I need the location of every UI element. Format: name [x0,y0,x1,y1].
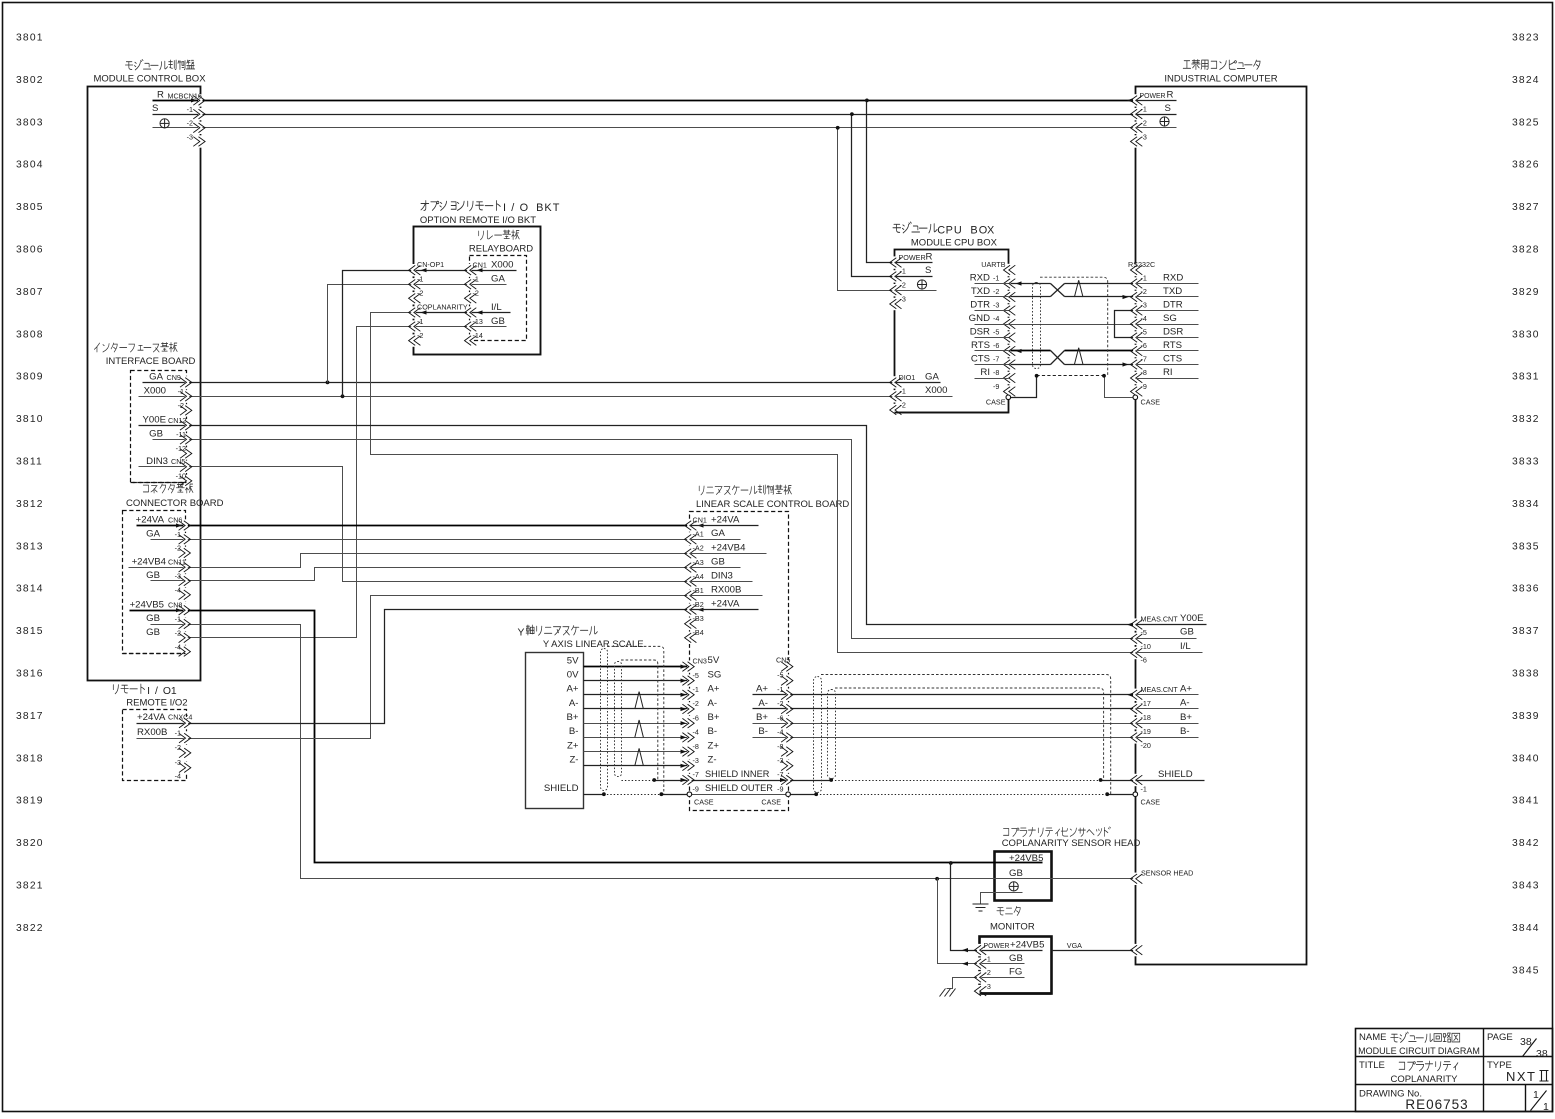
svg-text:-9: -9 [693,784,699,793]
svg-text:3839: 3839 [1512,711,1540,722]
svg-text:CN9: CN9 [167,373,181,382]
svg-text:I: I [503,202,506,214]
svg-text:A+: A+ [566,684,578,695]
svg-text:GB: GB [146,627,160,638]
svg-text:3835: 3835 [1512,541,1540,552]
svg-text:-6: -6 [693,713,699,722]
svg-text:3808: 3808 [16,329,44,340]
svg-text:-9: -9 [777,784,783,793]
svg-text:B+: B+ [566,712,578,723]
svg-text:CN12: CN12 [168,416,186,425]
svg-text:RXD: RXD [970,272,990,283]
svg-text:CASE: CASE [694,798,714,807]
svg-text:S: S [925,265,931,276]
svg-text:B: B [536,202,543,214]
svg-text:-2: -2 [417,289,423,298]
svg-text:CASE: CASE [986,398,1006,407]
svg-text:SHIELD: SHIELD [544,783,579,794]
svg-text:-10: -10 [176,472,186,481]
svg-text:I: I [147,686,150,697]
svg-text:REMOTE I/O2: REMOTE I/O2 [126,698,187,709]
svg-text:GB: GB [711,556,725,567]
svg-text:DSR: DSR [970,326,990,337]
svg-text:VGA: VGA [1067,941,1082,950]
svg-text:+24VB5: +24VB5 [1009,853,1043,864]
svg-text:-2: -2 [175,544,181,553]
svg-text:3822: 3822 [16,923,44,934]
svg-text:3809: 3809 [16,372,44,383]
svg-text:NAME: NAME [1359,1032,1386,1043]
svg-text:3819: 3819 [16,796,44,807]
svg-text:RXD: RXD [1163,272,1183,283]
svg-text:-9: -9 [993,382,999,391]
svg-text:-14: -14 [473,331,483,340]
svg-text:-2: -2 [993,287,999,296]
svg-text:-1: -1 [187,105,193,114]
svg-text:-1: -1 [985,955,991,964]
svg-text:3806: 3806 [16,245,44,256]
svg-text:-7: -7 [993,355,999,364]
svg-text:3821: 3821 [16,881,44,892]
svg-text:0V: 0V [567,669,579,680]
svg-text:CN5: CN5 [776,656,790,665]
svg-text:OPTION REMOTE I/O BKT: OPTION REMOTE I/O BKT [420,215,536,226]
svg-text:CN6: CN6 [168,516,182,525]
svg-text:-2: -2 [900,281,906,290]
svg-text:CNXC4: CNXC4 [168,713,192,722]
svg-text:MODULE CPU BOX: MODULE CPU BOX [911,238,998,249]
svg-text:3829: 3829 [1512,287,1540,298]
svg-text:-1: -1 [175,729,181,738]
svg-text:FG: FG [1009,967,1022,978]
svg-text:CTS: CTS [1163,353,1182,364]
svg-text:O: O [979,225,987,237]
svg-text:-8: -8 [993,368,999,377]
svg-text:3832: 3832 [1512,414,1540,425]
svg-text:3820: 3820 [16,838,44,849]
svg-text:P: P [946,225,953,237]
svg-text:-1: -1 [777,685,783,694]
svg-text:GB: GB [1180,627,1194,638]
svg-text:DTR: DTR [970,299,990,310]
svg-text:3811: 3811 [16,457,43,468]
svg-text:-2: -2 [187,119,193,128]
svg-text:CONNECTOR BOARD: CONNECTOR BOARD [126,498,224,509]
svg-text:-1: -1 [900,387,906,396]
svg-text:A-: A- [708,698,718,709]
svg-text:B+: B+ [1180,712,1192,723]
svg-text:Z-: Z- [708,755,717,766]
svg-text:O: O [163,686,171,697]
svg-text:CTS: CTS [971,353,990,364]
svg-text:-1: -1 [693,685,699,694]
svg-text:GB: GB [149,429,163,440]
svg-text:-3: -3 [175,572,181,581]
svg-text:POWER: POWER [984,943,1010,950]
svg-text:+24VB4: +24VB4 [711,542,746,553]
svg-text:GB: GB [146,570,160,581]
svg-text:X000: X000 [144,386,166,397]
svg-text:MODULE CONTROL BOX: MODULE CONTROL BOX [93,74,206,85]
svg-text:3836: 3836 [1512,584,1540,595]
svg-text:GB: GB [1009,868,1023,879]
svg-text:-2: -2 [1141,287,1147,296]
svg-text:RE06753: RE06753 [1405,1097,1468,1112]
svg-text:-3: -3 [777,756,783,765]
svg-text:-3: -3 [985,982,991,991]
svg-text:T: T [553,202,560,214]
svg-text:CN-OP1: CN-OP1 [417,260,444,269]
svg-text:-7: -7 [693,770,699,779]
svg-text:-A2: -A2 [693,544,704,553]
svg-text:3812: 3812 [16,499,44,510]
svg-text:Y00E: Y00E [143,415,166,426]
svg-text:-3: -3 [993,301,999,310]
svg-text:A-: A- [1180,698,1190,709]
svg-text:-2: -2 [473,289,479,298]
svg-text:3830: 3830 [1512,329,1540,340]
svg-text:INDUSTRIAL COMPUTER: INDUSTRIAL COMPUTER [1164,74,1277,85]
svg-text:MEAS.CNT: MEAS.CNT [1141,615,1179,624]
svg-text:GA: GA [711,528,725,539]
svg-text:GND: GND [969,313,990,324]
svg-text:COPLANARITY: COPLANARITY [1390,1074,1458,1085]
svg-text:GA: GA [146,529,160,540]
svg-text:CN11: CN11 [168,558,186,567]
svg-text:POWER: POWER [899,253,926,262]
svg-text:-B3: -B3 [693,614,704,623]
svg-text:CN8: CN8 [168,601,182,610]
svg-text:3815: 3815 [16,626,44,637]
svg-text:-3: -3 [1141,133,1147,142]
svg-text:GA: GA [149,372,163,383]
svg-text:3827: 3827 [1512,202,1540,213]
svg-text:Z-: Z- [569,755,578,766]
svg-text:MONITOR: MONITOR [990,922,1035,933]
svg-text:SHIELD: SHIELD [1158,769,1193,780]
svg-text:MODULE CIRCUIT DIAGRAM: MODULE CIRCUIT DIAGRAM [1358,1046,1480,1056]
svg-text:O: O [520,202,528,214]
svg-text:-2: -2 [178,401,184,410]
svg-text:RI: RI [980,367,990,378]
svg-text:3831: 3831 [1512,372,1540,383]
svg-text:Y00E: Y00E [1180,613,1203,624]
svg-text:A-: A- [569,698,579,709]
svg-text:-17: -17 [1141,699,1151,708]
svg-text:3844: 3844 [1512,923,1540,934]
svg-text:3842: 3842 [1512,838,1540,849]
svg-text:-19: -19 [1141,727,1151,736]
svg-text:Y AXIS LINEAR SCALE: Y AXIS LINEAR SCALE [543,639,644,650]
svg-text:3833: 3833 [1512,457,1540,468]
svg-text:Z+: Z+ [567,740,579,751]
svg-text:+24VA: +24VA [711,514,740,525]
svg-text:INTERFACE BOARD: INTERFACE BOARD [106,356,196,367]
svg-text:-2: -2 [693,699,699,708]
svg-text:3810: 3810 [16,414,44,425]
svg-text:-A4: -A4 [693,572,704,581]
svg-text:I/L: I/L [491,302,502,313]
svg-text:CN1: CN1 [473,260,487,269]
svg-text:38: 38 [1536,1048,1548,1060]
svg-text:CN3: CN3 [693,657,707,666]
svg-text:A+: A+ [708,684,720,695]
svg-text:LINEAR SCALE CONTROL BOARD: LINEAR SCALE CONTROL BOARD [696,499,849,510]
svg-text:+24VB4: +24VB4 [132,557,167,568]
svg-text:3805: 3805 [16,202,44,213]
svg-text:-6: -6 [777,713,783,722]
svg-text:3828: 3828 [1512,245,1540,256]
svg-text:-1: -1 [993,274,999,283]
svg-text:RX00B: RX00B [137,727,167,738]
svg-text:NXT: NXT [1506,1069,1537,1084]
svg-text:-B2: -B2 [693,600,704,609]
svg-text:-1: -1 [175,615,181,624]
svg-text:-1: -1 [900,267,906,276]
svg-text:+24VA: +24VA [711,599,740,610]
svg-text:R: R [1167,90,1174,101]
svg-text:-A3: -A3 [693,558,704,567]
svg-text:DIN3: DIN3 [146,456,168,467]
svg-text:+24VA: +24VA [137,712,166,723]
svg-text:-4: -4 [993,314,999,323]
svg-text:-18: -18 [1141,713,1151,722]
svg-text:-2: -2 [417,331,423,340]
svg-text:B-: B- [569,726,579,737]
svg-text:Y: Y [518,628,525,639]
svg-text:-1: -1 [417,317,423,326]
svg-text:/: / [155,686,158,697]
svg-text:-1: -1 [175,530,181,539]
svg-text:PAGE: PAGE [1487,1032,1513,1043]
svg-text:-2: -2 [985,968,991,977]
svg-text:TXD: TXD [971,286,990,297]
svg-text:-5: -5 [993,328,999,337]
svg-text:CN1: CN1 [693,516,707,525]
svg-text:B-: B- [708,726,718,737]
svg-text:3802: 3802 [16,75,44,86]
svg-text:+24VA: +24VA [136,515,165,526]
svg-text:1: 1 [1533,1089,1539,1101]
svg-text:GB: GB [146,613,160,624]
svg-text:TITLE: TITLE [1359,1060,1385,1071]
svg-text:K: K [544,202,552,214]
svg-text:GB: GB [491,316,505,327]
svg-text:A+: A+ [756,684,768,695]
svg-text:3825: 3825 [1512,117,1540,128]
svg-text:SG: SG [708,669,722,680]
svg-text:-20: -20 [1141,741,1151,750]
svg-text:-5: -5 [693,671,699,680]
svg-text:-9: -9 [1141,382,1147,391]
svg-text:X: X [987,225,995,237]
svg-text:-7: -7 [1141,355,1147,364]
svg-text:SG: SG [1163,313,1177,324]
svg-text:X000: X000 [491,260,513,271]
svg-text:3841: 3841 [1512,796,1540,807]
svg-text:DSR: DSR [1163,326,1183,337]
svg-text:B-: B- [758,726,768,737]
svg-text:B-: B- [1180,726,1190,737]
svg-text:SHIELD OUTER: SHIELD OUTER [705,783,773,793]
svg-text:R: R [926,252,933,263]
svg-text:-4: -4 [175,586,181,595]
svg-text:-5: -5 [1141,628,1147,637]
svg-text:-2: -2 [900,400,906,409]
svg-text:3837: 3837 [1512,626,1540,637]
svg-text:-4: -4 [175,772,181,781]
svg-text:3838: 3838 [1512,669,1540,680]
svg-text:3807: 3807 [16,287,44,298]
svg-text:C: C [937,225,945,237]
svg-text:-2: -2 [1141,119,1147,128]
svg-text:-1: -1 [1141,105,1147,114]
svg-text:-8: -8 [777,742,783,751]
svg-text:RI: RI [1163,367,1173,378]
svg-text:3816: 3816 [16,669,44,680]
svg-text:RTS: RTS [971,340,990,351]
svg-text:-B4: -B4 [693,628,704,637]
svg-text:3814: 3814 [16,584,44,595]
svg-text:POWER: POWER [1140,93,1166,100]
svg-text:MEAS.CNT: MEAS.CNT [1141,685,1179,694]
svg-text:-1: -1 [1141,785,1147,794]
svg-text:-12: -12 [176,444,186,453]
svg-text:-B1: -B1 [693,586,704,595]
svg-text:3813: 3813 [16,541,44,552]
svg-text:GA: GA [491,274,505,285]
svg-text:-A1: -A1 [693,530,704,539]
svg-text:-3: -3 [900,295,906,304]
svg-text:3824: 3824 [1512,75,1540,86]
svg-text:DIO1: DIO1 [899,373,916,382]
svg-text:-1: -1 [178,387,184,396]
svg-text:GB: GB [1009,953,1023,964]
svg-text:DIN3: DIN3 [711,570,733,581]
svg-text:1: 1 [1543,1101,1549,1113]
svg-text:-6: -6 [1141,656,1147,665]
svg-text:-1: -1 [473,275,479,284]
svg-text:1: 1 [171,686,177,697]
svg-text:-3: -3 [187,133,193,142]
svg-text:UARTB: UARTB [981,260,1005,269]
svg-text:A-: A- [758,698,768,709]
svg-text:Z+: Z+ [708,740,720,751]
svg-text:-2: -2 [777,699,783,708]
svg-text:GA: GA [925,371,939,382]
svg-text:-1: -1 [417,275,423,284]
svg-text:CASE: CASE [1141,398,1161,407]
svg-text:3843: 3843 [1512,881,1540,892]
svg-text:SHIELD INNER: SHIELD INNER [705,769,770,779]
svg-text:-5: -5 [1141,328,1147,337]
svg-text:SENSOR HEAD: SENSOR HEAD [1141,869,1193,878]
svg-text:+24VB5: +24VB5 [130,600,164,611]
svg-text:3803: 3803 [16,117,44,128]
svg-text:3840: 3840 [1512,753,1540,764]
svg-text:-2: -2 [175,629,181,638]
svg-text:-8: -8 [1141,368,1147,377]
svg-text:X000: X000 [925,385,947,396]
svg-text:+24VB5: +24VB5 [1010,939,1044,950]
svg-text:3817: 3817 [16,711,44,722]
svg-text:CN5: CN5 [171,457,185,466]
svg-text:MCBCN16: MCBCN16 [168,92,202,101]
svg-text:-1: -1 [1141,274,1147,283]
svg-text:3804: 3804 [16,160,44,171]
svg-text:3845: 3845 [1512,965,1540,976]
svg-text:I/L: I/L [1180,641,1191,652]
svg-text:3801: 3801 [16,33,44,44]
svg-text:-7: -7 [777,770,783,779]
svg-text:A+: A+ [1180,684,1192,695]
svg-text:RS232C: RS232C [1128,260,1155,269]
svg-text:U: U [954,225,962,237]
svg-text:RELAYBOARD: RELAYBOARD [469,244,533,255]
svg-text:-5: -5 [777,671,783,680]
svg-text:RX00B: RX00B [711,584,741,595]
svg-text:-10: -10 [1141,642,1151,651]
svg-text:DTR: DTR [1163,299,1183,310]
svg-text:-13: -13 [473,317,483,326]
svg-text:-6: -6 [993,341,999,350]
svg-text:-3: -3 [1141,301,1147,310]
svg-text:-4: -4 [693,728,699,737]
svg-text:COPLANARITY SENSOR HEAD: COPLANARITY SENSOR HEAD [1002,838,1141,849]
svg-text:3834: 3834 [1512,499,1540,510]
svg-text:B: B [970,225,977,237]
svg-text:3818: 3818 [16,753,44,764]
svg-text:TXD: TXD [1163,286,1182,297]
svg-text:-3: -3 [693,756,699,765]
svg-text:S: S [152,103,158,114]
svg-text:-2: -2 [175,743,181,752]
svg-text:B+: B+ [708,712,720,723]
svg-text:-4: -4 [1141,314,1147,323]
svg-text:-4: -4 [175,643,181,652]
svg-text:S: S [1165,103,1171,114]
svg-text:-8: -8 [693,742,699,751]
svg-text:CASE: CASE [761,798,781,807]
svg-text:3826: 3826 [1512,160,1540,171]
svg-text:RTS: RTS [1163,340,1182,351]
svg-text:-4: -4 [777,728,783,737]
svg-text:COPLANARITY: COPLANARITY [417,303,468,312]
svg-text:5V: 5V [708,655,720,666]
svg-text:3823: 3823 [1512,33,1540,44]
svg-text:-6: -6 [1141,341,1147,350]
svg-text:B+: B+ [756,712,768,723]
svg-text:R: R [157,90,164,101]
svg-text:CASE: CASE [1141,798,1161,807]
svg-text:5V: 5V [567,655,579,666]
svg-text:-11: -11 [176,430,186,439]
svg-text:-3: -3 [175,758,181,767]
